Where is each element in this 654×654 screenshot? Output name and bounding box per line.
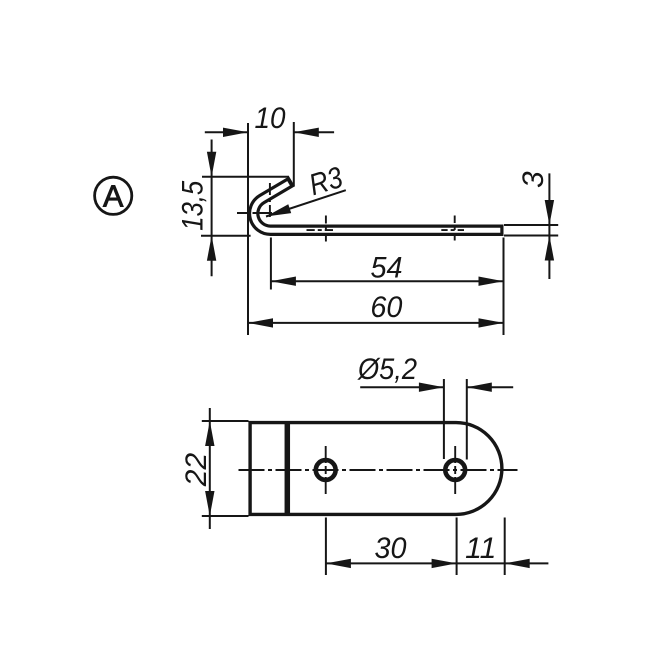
svg-text:22: 22 (180, 453, 213, 488)
svg-text:13,5: 13,5 (177, 181, 210, 231)
svg-text:60: 60 (370, 291, 402, 324)
svg-text:A: A (103, 180, 124, 214)
svg-text:10: 10 (255, 102, 286, 135)
svg-text:Ø5,2: Ø5,2 (357, 353, 417, 386)
svg-text:R3: R3 (305, 161, 346, 202)
svg-text:3: 3 (517, 171, 550, 188)
svg-text:54: 54 (371, 252, 403, 285)
svg-text:30: 30 (375, 532, 407, 565)
svg-text:11: 11 (465, 532, 496, 565)
